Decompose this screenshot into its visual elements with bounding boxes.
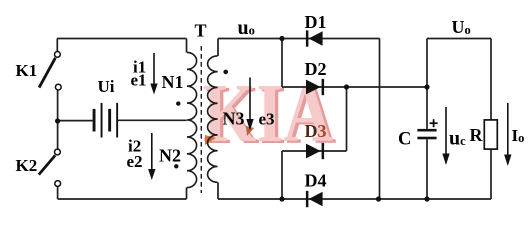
junction dot D2-mid: [344, 84, 349, 89]
arrow i1/e1: [150, 53, 157, 95]
svg-text:e1: e1: [131, 71, 147, 90]
diode D4: [306, 191, 323, 207]
arrow i2/e2: [148, 133, 155, 180]
svg-text:N2: N2: [159, 146, 181, 166]
wire secondary top drop: [217, 39, 219, 57]
wire secondary top rail u_o: [218, 38, 380, 40]
capacitor plus sign: [430, 119, 438, 127]
diode D3: [306, 143, 324, 159]
svg-text:N3: N3: [223, 109, 245, 129]
transformer primary winding N1+N2: [187, 52, 197, 187]
polarity dot N3: [223, 70, 228, 75]
svg-text:C: C: [398, 130, 411, 150]
svg-text:D4: D4: [305, 171, 327, 191]
capacitor C plates: [417, 129, 436, 139]
svg-text:K1: K1: [16, 61, 38, 80]
watermark orange accent left: [205, 135, 216, 145]
wire below K2: [57, 186, 59, 199]
svg-text:N1: N1: [162, 72, 184, 92]
wire primary bottom drop: [186, 187, 188, 199]
switch K2 top contact: [55, 149, 61, 155]
wire top-left rail: [57, 38, 187, 40]
svg-text:K2: K2: [16, 156, 38, 175]
wire D3 line: [282, 150, 347, 152]
diode D2: [306, 79, 324, 95]
switch K1 bottom contact: [55, 84, 61, 90]
resistor R body: [484, 120, 497, 149]
wire R rail upper: [490, 39, 492, 121]
wire bridge middle vertical: [346, 87, 348, 151]
diode D1: [306, 30, 323, 46]
svg-text:D2: D2: [305, 59, 327, 79]
transformer secondary winding N3: [208, 56, 218, 182]
node A dot: [279, 36, 284, 41]
arrow I_o: [504, 103, 511, 166]
junction dot battery node: [55, 118, 60, 123]
svg-text:D3: D3: [305, 121, 327, 141]
svg-text:e3: e3: [259, 110, 275, 129]
wire bottom-left rail (primary return): [58, 198, 187, 200]
wire primary top drop: [186, 39, 188, 53]
wire bridge right vertical: [379, 39, 381, 200]
wire bridge left vertical upper: [281, 39, 283, 88]
switch K1 blade: [39, 58, 55, 88]
svg-text:R: R: [470, 125, 484, 145]
wire C rail lower: [426, 139, 428, 199]
svg-text:e2: e2: [127, 152, 143, 171]
wire bottom rail secondary to R: [218, 198, 491, 200]
svg-text:T: T: [195, 20, 207, 40]
switch K1 top contact: [55, 52, 61, 58]
switch K2 blade: [39, 155, 55, 174]
polarity dot N2: [174, 164, 178, 168]
wire secondary bottom drop: [217, 182, 219, 199]
svg-text:D1: D1: [305, 12, 327, 32]
wire bridge left vertical lower: [281, 151, 283, 199]
junction dot D2-C rail: [424, 84, 429, 89]
junction dot C bottom: [424, 196, 429, 201]
arrow u_c: [442, 107, 449, 165]
wire top right rail: [427, 38, 491, 40]
wire left column upper: [56, 39, 58, 52]
wire C rail upper: [426, 39, 428, 129]
wire battery left lead: [58, 120, 93, 122]
svg-text:Ui: Ui: [98, 77, 115, 96]
wire D2 output line: [282, 86, 427, 88]
polarity dot N1: [176, 101, 180, 105]
watermark orange accent mid: [246, 126, 254, 136]
transformer core: [200, 46, 202, 193]
battery Ui plates: [93, 103, 119, 138]
wire between K1 and K2: [57, 90, 59, 149]
arrow e3: [246, 78, 253, 131]
switch K2 bottom contact: [55, 181, 61, 187]
junction dot secondary bottom: [279, 196, 284, 201]
wire battery right lead to center tap: [118, 119, 187, 121]
wire R rail lower: [490, 149, 492, 199]
junction dot right rail bottom: [376, 196, 381, 201]
